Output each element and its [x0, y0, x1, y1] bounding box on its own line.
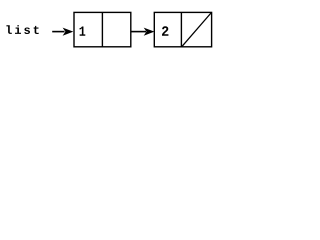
- arrowhead 2: [144, 28, 155, 36]
- node box 1: [74, 12, 131, 46]
- value label 2: [162, 26, 168, 36]
- node box 2 divider: [180, 12, 182, 46]
- null slash: [182, 13, 211, 46]
- wire arrow1 shaft: [52, 31, 64, 33]
- value label 1: [80, 26, 86, 35]
- node list label: [6, 25, 38, 34]
- linked-list diagram: [0, 0, 229, 63]
- arrowhead 1: [63, 28, 74, 36]
- wire arrow2 shaft: [131, 31, 146, 33]
- node box 2: [154, 12, 211, 46]
- node box 1 divider: [101, 12, 103, 46]
